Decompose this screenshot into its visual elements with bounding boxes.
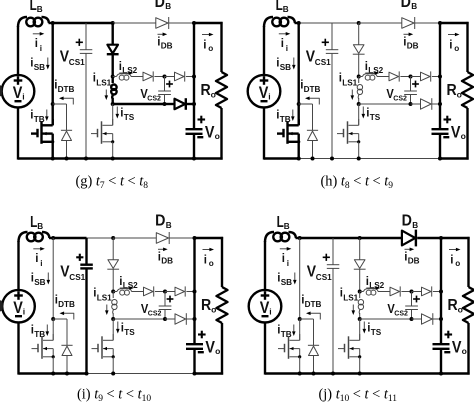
wire DS3 to output node (g) (186, 76, 194, 78)
current arrow iLS2 (g) (119, 71, 133, 75)
label iTS (g) (120, 108, 134, 123)
capacitor Vo (h) (432, 129, 449, 134)
wire Vo to rail (h) (439, 134, 441, 159)
wire DS4 to output node (g) (186, 103, 194, 105)
wire switch branch vertical (j) (299, 238, 301, 319)
transistor TS mosfet (g) (91, 119, 114, 144)
svg-text:B: B (165, 2, 171, 11)
diode DS4 (i) (175, 313, 186, 325)
wire top rail segment A (h) (299, 22, 332, 24)
wire diode to node A (i) (112, 269, 114, 291)
wire LS2 to diode DS2 (i) (132, 291, 144, 293)
wire TB source to rail (i) (52, 357, 54, 374)
svg-text:i: i (23, 307, 25, 317)
node C (i) (163, 290, 167, 294)
svg-text:DTB: DTB (58, 300, 75, 309)
node A (g) (111, 75, 115, 79)
svg-text:B: B (283, 5, 289, 14)
diode DS4 (j) (422, 313, 433, 325)
svg-text:TS: TS (124, 328, 135, 337)
current arrow iDB (g) (158, 33, 168, 37)
svg-text:B: B (284, 222, 290, 231)
junction bottom rail x52 (g) (51, 157, 55, 161)
wire to body diode DTB (h) (299, 104, 313, 130)
wire to boost diode DB (i) (113, 237, 156, 239)
wire DS3 to output node (j) (433, 291, 441, 293)
wire DTB anode to rail (g) (66, 141, 68, 159)
capacitor VCS2 (g) (158, 91, 171, 95)
inductor LS2 (j) (360, 289, 378, 295)
capacitor Vo (g) (186, 129, 203, 134)
node DB cathode rail (h) (438, 21, 442, 25)
wire DS3 to output node (h) (432, 76, 440, 78)
transistor TB mosfet (i) (32, 334, 55, 359)
svg-text:i: i (204, 255, 207, 267)
wire to boost diode DB (j) (360, 237, 402, 239)
wire switch branch vertical (g) (52, 23, 54, 104)
wire LS2 to diode DS2 (g) (131, 76, 143, 78)
label VCS2 (h) (386, 86, 407, 103)
svg-text:(i) t9 < t < t10: (i) t9 < t < t10 (77, 387, 151, 403)
wire TS source to rail (i) (112, 357, 114, 374)
wire LS2 to diode DS2 (j) (378, 291, 390, 293)
wire DS2 to node C (i) (155, 291, 165, 293)
capacitor Vo (j) (433, 344, 450, 349)
wire TB drain (j) (299, 319, 301, 340)
current arrow i_i (i) (33, 247, 45, 251)
node B (g) (111, 102, 115, 106)
label iDB (g) (157, 36, 172, 50)
svg-text:o: o (455, 259, 460, 268)
wire node C to diode DS3 (j) (412, 291, 422, 293)
label iLS1 (j) (340, 288, 359, 303)
svg-text:o: o (462, 346, 467, 356)
node row B mid (g) (163, 102, 167, 106)
svg-text:i: i (40, 259, 42, 268)
svg-text:CS1: CS1 (69, 58, 85, 67)
wire output node column (j) (440, 238, 442, 344)
wire right edge bottom (h) (466, 108, 468, 160)
svg-text:DB: DB (408, 257, 420, 266)
label iSB (g) (30, 58, 45, 73)
svg-text:V: V (452, 339, 462, 357)
label VCS2 (j) (387, 301, 408, 318)
wire left vertical bottom (h) (263, 107, 265, 159)
svg-text:CS2: CS2 (147, 96, 161, 103)
current arrow iDB (j) (405, 248, 415, 252)
inductor LS2 (i) (113, 289, 131, 295)
wire bottom rail mid-left (g) (53, 157, 86, 159)
inductor LB (g) (18, 17, 53, 27)
junction bottom rail x66 (j) (312, 372, 316, 376)
label iLS1 (g) (93, 73, 112, 88)
wire TB source to rail (g) (52, 142, 54, 159)
label LB (h) (276, 0, 289, 14)
label LB (i) (30, 214, 43, 231)
current arrow iLS1 (i) (105, 305, 109, 316)
label Vo (i) (205, 339, 220, 357)
current arrow i_i (h) (279, 32, 291, 36)
diode DTB (g) (61, 130, 72, 140)
node top rail left (g) (51, 21, 55, 25)
diode DS3 (j) (422, 286, 432, 296)
inductor LS2 (h) (359, 74, 377, 80)
transistor TB mosfet (g) (31, 119, 54, 144)
wire diode to node A (j) (359, 269, 361, 291)
label DB (h) (401, 0, 418, 11)
wire VCS2 bottom (h) (410, 95, 412, 105)
plus sign VCS2 (i) (167, 296, 174, 303)
capacitor VCS1 (h) (326, 50, 339, 54)
wire right edge bottom (j) (467, 323, 469, 375)
node TB drain (i) (51, 317, 55, 321)
wire TS drain (g) (112, 104, 114, 125)
junction bottom rail x86 (g) (84, 157, 88, 161)
diode DS2 (h) (389, 71, 399, 81)
node B (h) (357, 102, 361, 106)
label Vo (h) (451, 124, 466, 142)
wire VCS1 top (h) (331, 23, 333, 50)
junction bottom rail x66 (i) (65, 372, 69, 376)
capacitor VCS2 (j) (405, 306, 418, 310)
label DB (j) (402, 213, 419, 230)
wire top rail segment A (i) (53, 237, 86, 239)
wire Vo to rail (j) (440, 349, 442, 374)
wire top rail segment B (h) (332, 22, 359, 24)
current arrow iDTB (g) (59, 97, 73, 105)
wire left vertical bottom (g) (17, 107, 19, 159)
wire to body diode DTB (g) (53, 104, 67, 130)
inductor LS1 (g) (111, 77, 116, 105)
capacitor VCS1 (i) (80, 265, 93, 269)
diode DB (h) (402, 17, 415, 29)
wire to boost diode DB (g) (113, 22, 156, 24)
junction bottom rail x112 (h) (357, 157, 361, 161)
wire bottom rail middle (g) (86, 157, 194, 159)
current arrow iTS (i) (116, 322, 120, 334)
current arrow iSB (i) (47, 273, 51, 285)
wire from DB cathode (i) (170, 237, 195, 239)
junction bottom rail x194 (i) (193, 372, 197, 376)
caption (h) (321, 174, 394, 192)
wire node C to diode DS3 (g) (165, 76, 175, 78)
node row A output (g) (192, 75, 196, 79)
plus sign Vo (h) (444, 116, 452, 124)
current arrow iTB (i) (46, 325, 50, 337)
svg-text:o: o (208, 44, 213, 53)
svg-text:V: V (451, 124, 461, 142)
wire right edge bottom (g) (220, 108, 222, 160)
svg-text:i: i (450, 255, 453, 267)
wire DS4 to output node (j) (433, 318, 441, 320)
minus sign Vo (i) (198, 351, 204, 353)
junction bottom rail x112 (i) (111, 372, 115, 376)
label Vo (g) (205, 124, 220, 142)
svg-text:(g) t7 < t < t8: (g) t7 < t < t8 (76, 174, 149, 192)
current arrow io (i) (203, 248, 215, 252)
wire from DB cathode (h) (415, 22, 440, 24)
wire top rail right (i) (195, 237, 224, 239)
label Ro (j) (448, 297, 463, 314)
caption (j) (319, 387, 398, 403)
current arrow iTB (j) (292, 325, 296, 337)
wire top rail right (j) (441, 237, 470, 239)
wire top rail right (h) (440, 22, 469, 24)
current arrow iLS2 (h) (365, 71, 379, 75)
svg-text:V: V (13, 299, 23, 317)
inductor LB (h) (264, 17, 299, 27)
svg-text:i: i (449, 40, 452, 52)
diode DS4 (g) (175, 98, 186, 110)
svg-text:DTB: DTB (58, 85, 75, 94)
wire node C to diode DS3 (h) (411, 76, 421, 78)
node A (j) (358, 290, 362, 294)
wire VCS1 top (g) (85, 23, 87, 50)
wire to body diode DTB (i) (53, 319, 67, 345)
wire right edge top (i) (221, 237, 223, 287)
svg-text:B: B (166, 221, 172, 230)
node C (g) (163, 75, 167, 79)
node row B output (j) (439, 317, 443, 321)
svg-text:DB: DB (161, 42, 173, 51)
wire bottom rail left (i) (19, 372, 54, 374)
node DB cathode rail (j) (439, 236, 443, 240)
current arrow iDB (h) (404, 33, 414, 37)
wire TS source to rail (j) (359, 357, 361, 374)
wire DS4 to output node (h) (432, 103, 440, 105)
diode DS1 pointing down (j) (354, 260, 366, 270)
wire row B left (i) (113, 318, 165, 320)
junction bottom rail x194 (g) (192, 157, 196, 161)
wire bottom rail middle (j) (333, 372, 441, 374)
inductor LB (i) (19, 232, 54, 242)
resistor Ro (j) (463, 287, 474, 323)
svg-text:o: o (454, 44, 459, 53)
label iSB (j) (277, 273, 292, 288)
junction bottom rail x86 (i) (85, 372, 89, 376)
wire bottom rail middle (i) (87, 373, 195, 375)
label DB (i) (155, 213, 172, 230)
inductor LS2 (g) (113, 74, 131, 80)
current arrow iLS1 (g) (105, 90, 109, 101)
node TB drain (j) (298, 317, 302, 321)
label VCS1 (i) (60, 264, 85, 282)
wire LS2 to diode DS2 (h) (377, 76, 389, 78)
wire VCS2 bottom (g) (164, 95, 166, 105)
print artifact at left edge (i) (0, 300, 3, 311)
wire VCS1 bottom (g) (85, 53, 87, 158)
label iTB (j) (277, 325, 291, 340)
current arrow iTB (h) (291, 110, 295, 122)
label VCS1 (g) (60, 49, 85, 67)
wire Vo to rail (i) (193, 349, 195, 374)
wire from DB cathode (j) (417, 237, 441, 239)
inductor LS1 (j) (358, 292, 363, 320)
label io (i) (204, 255, 214, 269)
svg-text:TB: TB (34, 115, 45, 124)
label i_i (i) (35, 253, 42, 268)
diode DS2 (j) (390, 286, 400, 296)
diode DTB (i) (61, 345, 72, 355)
junction bottom rail x112 (j) (358, 372, 362, 376)
wire output node column (g) (193, 23, 195, 129)
wire top rail segment A (g) (53, 22, 86, 24)
node top rail mid (i) (111, 236, 115, 240)
node B (j) (358, 317, 362, 321)
wire VCS2 top (g) (164, 77, 166, 92)
wire left vertical top (i) (17, 241, 19, 290)
wire from DB cathode (g) (169, 22, 194, 24)
node row B output (h) (438, 102, 442, 106)
junction bottom rail x52 (i) (51, 372, 55, 376)
wire bottom rail mid-left (h) (299, 158, 332, 160)
label iDTB (i) (55, 295, 75, 310)
svg-text:TB: TB (281, 330, 292, 339)
node DB cathode rail (i) (193, 236, 197, 240)
junction bottom rail x52 (j) (298, 372, 302, 376)
current arrow iTS (g) (116, 107, 120, 119)
resistor Ro (g) (216, 72, 227, 108)
capacitor VCS1 (g) (80, 50, 93, 54)
svg-text:CS2: CS2 (148, 311, 162, 318)
label iLS2 (h) (365, 61, 384, 75)
transistor TB mosfet (h) (277, 119, 300, 144)
wire VCS1 bottom (j) (332, 268, 334, 373)
current arrow iLS2 (j) (366, 286, 380, 290)
svg-text:D: D (155, 213, 165, 230)
wire output node column (i) (193, 238, 195, 344)
wire bottom rail right (j) (441, 372, 470, 374)
diode DTB (h) (307, 130, 318, 140)
node top rail left (i) (51, 236, 55, 240)
svg-text:i: i (40, 44, 42, 53)
wire clamp branch top (g) (111, 23, 113, 45)
label VCS2 (g) (140, 86, 161, 103)
diode DTB (j) (308, 345, 319, 355)
wire node C to diode DS3 (i) (165, 291, 175, 293)
wire diode to node A (h) (358, 54, 360, 76)
svg-text:i: i (282, 253, 285, 265)
label iTS (h) (366, 108, 380, 123)
transistor TS mosfet (j) (338, 334, 361, 359)
wire clamp branch top (h) (358, 23, 360, 45)
svg-text:o: o (209, 259, 214, 268)
wire to body diode DTB (j) (300, 319, 314, 345)
label iTS (j) (367, 323, 381, 338)
voltage source Vi (h) (248, 75, 281, 108)
label VCS1 (h) (306, 49, 331, 67)
node B (i) (111, 317, 115, 321)
node C (h) (409, 75, 413, 79)
capacitor VCS1 (j) (327, 265, 340, 269)
plus sign VCS1 (h) (322, 39, 329, 46)
wire VCS2 bottom (j) (411, 310, 413, 320)
diode DB (j) (402, 230, 416, 247)
node top rail left (h) (297, 21, 301, 25)
current arrow i_i (j) (280, 247, 292, 251)
junction bottom rail x86 (h) (330, 157, 334, 161)
svg-text:o: o (457, 89, 462, 99)
wire bottom rail left (h) (264, 157, 299, 159)
wire TB source to rail (j) (299, 357, 301, 374)
wire left vertical top (j) (264, 241, 266, 290)
current arrow iDTB (j) (306, 312, 320, 320)
wire TS drain (j) (359, 319, 361, 340)
svg-text:V: V (260, 299, 270, 317)
junction bottom rail x52 (h) (297, 157, 301, 161)
current arrow iTS (h) (362, 107, 366, 119)
plus sign VCS2 (j) (413, 296, 420, 303)
svg-text:i: i (269, 307, 271, 317)
node top rail mid (h) (357, 21, 361, 25)
wire DS3 to output node (i) (186, 291, 194, 293)
svg-text:o: o (215, 346, 220, 356)
wire TS drain (i) (112, 319, 114, 340)
svg-text:CS2: CS2 (394, 311, 408, 318)
svg-text:TB: TB (280, 115, 291, 124)
wire bottom rail middle (h) (332, 158, 440, 160)
label DB (g) (155, 0, 172, 11)
wire switch branch vertical (h) (298, 23, 300, 104)
current arrow iSB (j) (293, 273, 297, 285)
svg-text:LS1: LS1 (342, 79, 357, 88)
wire row B to diode DS4 (g) (165, 103, 175, 105)
wire diode to node A (g) (111, 54, 113, 76)
svg-text:LS1: LS1 (96, 79, 111, 88)
svg-text:DB: DB (161, 257, 173, 266)
wire bottom rail left (j) (265, 372, 300, 374)
caption (i) (77, 387, 151, 403)
label VCS2 (i) (141, 301, 162, 318)
svg-text:DB: DB (407, 42, 419, 51)
svg-text:CS1: CS1 (315, 58, 331, 67)
label iSB (h) (276, 58, 291, 73)
current arrow iSB (h) (292, 58, 296, 70)
wire VCS2 top (h) (410, 77, 412, 92)
junction bottom rail x194 (h) (438, 157, 442, 161)
label iDTB (h) (300, 80, 320, 95)
svg-text:B: B (37, 222, 43, 231)
wire top rail segment B (j) (333, 237, 360, 239)
label iDTB (j) (301, 295, 321, 310)
svg-text:o: o (458, 304, 463, 314)
label iTB (i) (31, 325, 45, 340)
wire top rail segment B (g) (86, 22, 113, 24)
node A (i) (111, 290, 115, 294)
label i_i (j) (282, 253, 289, 268)
current arrow iTS (j) (363, 322, 367, 334)
label iLS2 (g) (119, 61, 138, 75)
junction bottom rail x194 (j) (439, 372, 443, 376)
node row A output (i) (193, 290, 197, 294)
current arrow io (j) (449, 248, 461, 252)
wire bottom rail right (h) (440, 157, 469, 159)
wire right edge top (h) (466, 22, 468, 72)
diode DS1 pointing down (h) (353, 45, 365, 55)
junction bottom rail x66 (h) (311, 157, 315, 161)
node row B mid (h) (409, 102, 413, 106)
svg-text:o: o (211, 304, 216, 314)
svg-text:R: R (201, 297, 212, 314)
label iLS2 (i) (119, 276, 138, 290)
minus sign Vo (g) (197, 136, 203, 138)
wire right edge top (j) (467, 237, 469, 287)
junction bottom rail x86 (j) (331, 372, 335, 376)
wire TS source to rail (g) (112, 142, 114, 159)
voltage source Vi (j) (249, 290, 282, 323)
diode DS4 (h) (421, 98, 432, 110)
caption (g) (76, 174, 149, 192)
